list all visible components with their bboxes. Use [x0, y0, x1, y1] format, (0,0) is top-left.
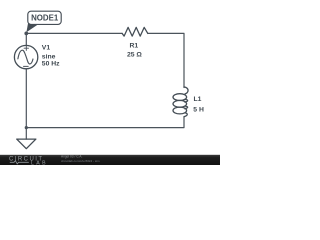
svg-text:50 Hz: 50 Hz [42, 61, 60, 68]
svg-text:R1: R1 [129, 42, 138, 49]
svg-text:V1: V1 [42, 45, 51, 52]
svg-text:L1: L1 [194, 96, 202, 103]
svg-text:sine: sine [42, 53, 56, 60]
svg-text:circuitlab.com/c/uv56k3 - sim: circuitlab.com/c/uv56k3 - sim [61, 159, 100, 163]
svg-text:LAB: LAB [31, 160, 48, 165]
svg-text:5 H: 5 H [193, 106, 204, 113]
svg-text:25 Ω: 25 Ω [127, 52, 142, 59]
svg-text:NODE1: NODE1 [31, 13, 59, 22]
svg-text:Angel 03 / C.A.: Angel 03 / C.A. [61, 154, 83, 158]
